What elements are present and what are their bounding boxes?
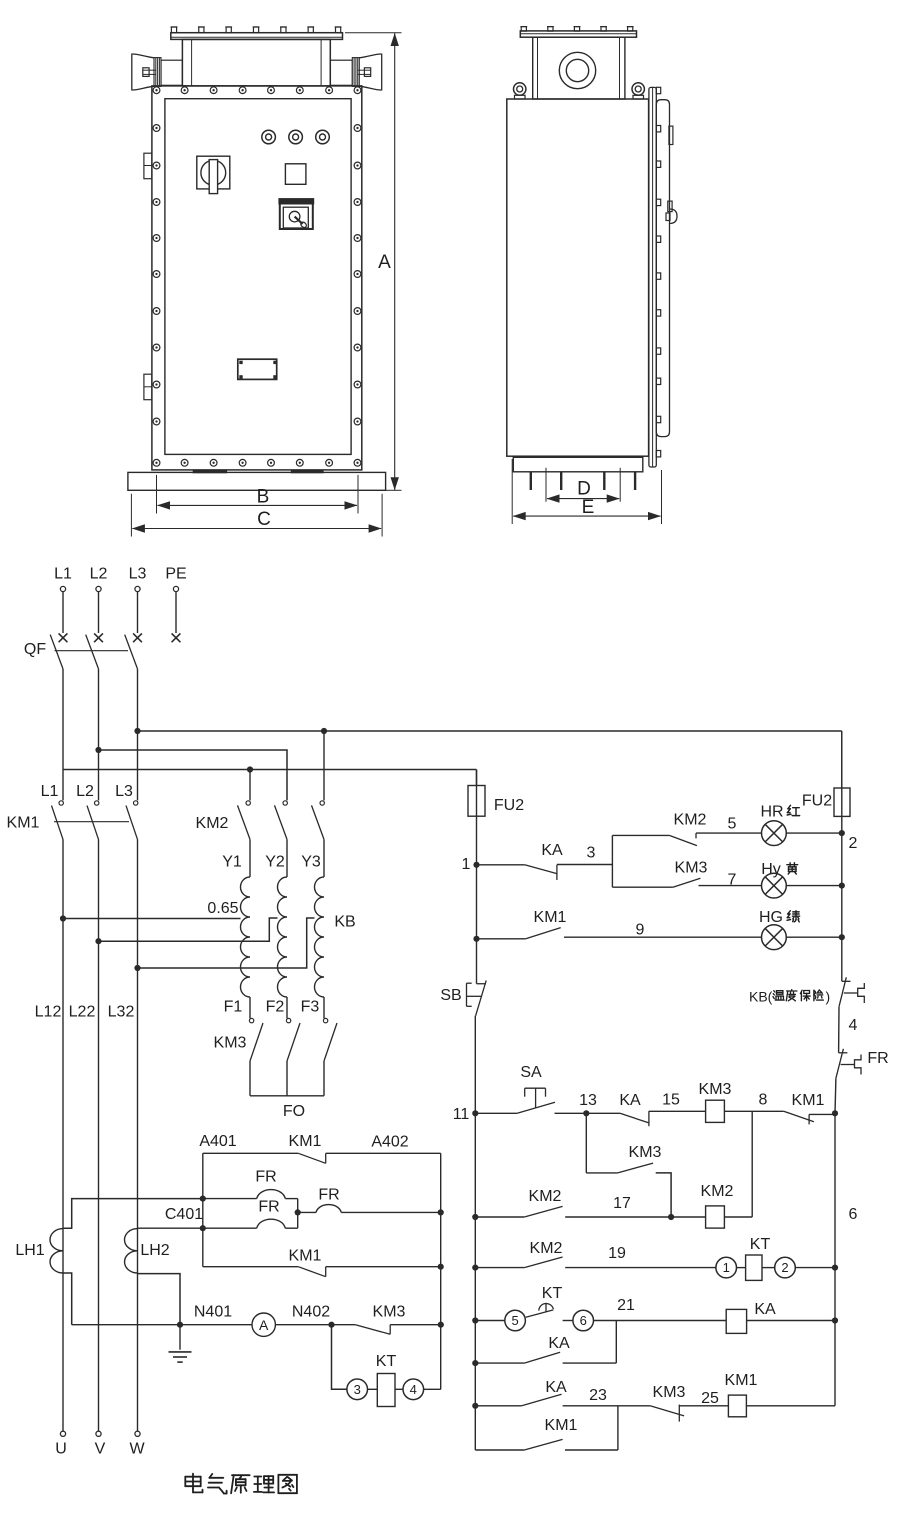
svg-text:N402: N402 xyxy=(292,1304,330,1321)
svg-text:LH2: LH2 xyxy=(140,1242,169,1259)
svg-text:KM2: KM2 xyxy=(674,812,707,829)
cable horn left xyxy=(132,54,154,90)
svg-text:3: 3 xyxy=(354,1382,361,1397)
svg-text:A: A xyxy=(259,1317,269,1333)
svg-text:3: 3 xyxy=(587,845,596,862)
svg-text:KA: KA xyxy=(548,1335,570,1352)
svg-text:KA: KA xyxy=(541,842,563,859)
base plinth xyxy=(128,472,386,490)
wire: node 8 drop xyxy=(751,1111,753,1217)
wire: L3 bus to right rail xyxy=(138,730,842,732)
svg-text:KM3: KM3 xyxy=(629,1144,662,1161)
wire: right rail lower xyxy=(834,1113,836,1406)
svg-text:19: 19 xyxy=(608,1245,626,1262)
main rotary switch handle xyxy=(197,156,230,189)
svg-text:KM2: KM2 xyxy=(530,1240,563,1257)
wire: branch split xyxy=(611,835,613,887)
wire: 65% tap phase 3 xyxy=(138,918,315,968)
QF linkage xyxy=(55,650,129,652)
svg-text:4: 4 xyxy=(849,1017,858,1034)
dimension E xyxy=(511,459,513,524)
svg-text:QF: QF xyxy=(24,641,46,658)
svg-text:KM2: KM2 xyxy=(196,815,229,832)
gland hole xyxy=(559,52,595,88)
svg-text:F2: F2 xyxy=(266,999,285,1016)
svg-text:L12: L12 xyxy=(35,1004,62,1021)
svg-text:5: 5 xyxy=(511,1313,518,1328)
door outer face xyxy=(656,100,669,437)
svg-text:FR: FR xyxy=(867,1050,888,1067)
ground xyxy=(179,1325,181,1350)
svg-text:8: 8 xyxy=(759,1092,768,1109)
frame bolts top row xyxy=(153,87,160,94)
svg-text:FR: FR xyxy=(255,1169,276,1186)
svg-text:U: U xyxy=(55,1441,67,1458)
svg-text:LH1: LH1 xyxy=(15,1242,44,1259)
svg-text:KA: KA xyxy=(754,1301,776,1318)
svg-text:KM2: KM2 xyxy=(701,1183,734,1200)
svg-text:KT: KT xyxy=(750,1236,771,1253)
cabinet side view xyxy=(507,27,677,524)
dimension A xyxy=(345,32,402,34)
svg-text:KM3: KM3 xyxy=(675,860,708,877)
svg-text:9: 9 xyxy=(636,922,645,939)
svg-text:): ) xyxy=(826,989,831,1005)
svg-text:FR: FR xyxy=(258,1199,279,1216)
dimension C xyxy=(130,494,132,537)
svg-text:A402: A402 xyxy=(371,1134,408,1151)
svg-text:L32: L32 xyxy=(108,1004,135,1021)
svg-text:C: C xyxy=(257,509,271,530)
svg-text:KT: KT xyxy=(376,1353,397,1370)
svg-text:L22: L22 xyxy=(69,1004,96,1021)
svg-text:23: 23 xyxy=(589,1387,607,1404)
svg-text:HR: HR xyxy=(760,804,783,821)
svg-text:KT: KT xyxy=(542,1285,563,1302)
dimension B xyxy=(156,475,158,514)
svg-text:PE: PE xyxy=(165,566,186,583)
door bolts xyxy=(656,87,660,93)
svg-text:FU2: FU2 xyxy=(802,793,832,810)
svg-text:KM1: KM1 xyxy=(534,909,567,926)
top flange bar xyxy=(171,33,343,40)
wire: FO star point xyxy=(250,1095,324,1097)
svg-text:FO: FO xyxy=(283,1103,305,1120)
svg-text:KM1: KM1 xyxy=(289,1133,322,1150)
svg-text:0.65: 0.65 xyxy=(207,900,238,917)
wire: right loop vertical xyxy=(440,1153,442,1389)
svg-text:Hy: Hy xyxy=(761,861,781,878)
door handle xyxy=(668,201,672,212)
svg-text:KM1: KM1 xyxy=(7,815,40,832)
svg-text:FR: FR xyxy=(318,1187,339,1204)
cable horn right xyxy=(360,54,382,90)
top cable entry box xyxy=(182,39,330,86)
svg-text:KA: KA xyxy=(619,1092,641,1109)
motor terminals U V W xyxy=(60,1431,65,1436)
svg-text:A401: A401 xyxy=(199,1133,236,1150)
side base xyxy=(513,457,643,472)
svg-text:SB: SB xyxy=(440,987,461,1004)
svg-text:A: A xyxy=(378,252,391,273)
hinge tab lower xyxy=(144,374,152,400)
wire: node 6 drop below xyxy=(615,1321,617,1364)
svg-text:Y3: Y3 xyxy=(301,854,321,871)
frame bolts left column xyxy=(153,125,160,132)
svg-text:KB(: KB( xyxy=(749,989,773,1005)
legs xyxy=(530,472,532,490)
svg-text:E: E xyxy=(582,497,595,518)
svg-text:1: 1 xyxy=(462,856,471,873)
wire: control left rail xyxy=(476,816,478,984)
svg-text:W: W xyxy=(129,1441,145,1458)
svg-text:4: 4 xyxy=(410,1382,417,1397)
top flange bolts xyxy=(171,27,176,33)
svg-text:KM3: KM3 xyxy=(653,1384,686,1401)
horn bolt right xyxy=(364,68,370,77)
indicator lights xyxy=(262,130,276,144)
lifting eye left xyxy=(514,83,526,95)
svg-text:B: B xyxy=(257,487,270,508)
svg-text:KM1: KM1 xyxy=(545,1417,578,1434)
svg-text:11: 11 xyxy=(453,1106,470,1123)
svg-text:HG: HG xyxy=(759,909,783,926)
svg-text:F1: F1 xyxy=(224,999,243,1016)
side ear left xyxy=(161,60,182,85)
svg-text:KA: KA xyxy=(545,1379,567,1396)
svg-text:KM2: KM2 xyxy=(529,1188,562,1205)
svg-text:KB: KB xyxy=(334,914,355,931)
cabinet front view xyxy=(128,27,402,537)
lifting eye right xyxy=(632,83,644,95)
reset button xyxy=(285,164,306,185)
svg-text:F3: F3 xyxy=(301,999,320,1016)
svg-text:6: 6 xyxy=(580,1313,587,1328)
svg-text:L3: L3 xyxy=(115,783,133,800)
svg-text:1: 1 xyxy=(723,1260,730,1275)
wire: control right rail xyxy=(841,816,843,981)
svg-text:2: 2 xyxy=(781,1260,788,1275)
svg-text:7: 7 xyxy=(728,872,737,889)
door panel xyxy=(165,99,351,455)
wire: left loop vertical xyxy=(202,1153,204,1266)
wire: 65% tap phase 2 xyxy=(99,918,278,941)
svg-text:L1: L1 xyxy=(41,783,59,800)
wire: taps to KM2 poles xyxy=(249,770,251,801)
svg-text:L2: L2 xyxy=(76,783,94,800)
svg-text:KM3: KM3 xyxy=(214,1035,247,1052)
cable gland plate right xyxy=(352,58,359,87)
side flange bolts xyxy=(521,27,526,32)
side ear right xyxy=(330,60,352,85)
key switch window xyxy=(280,200,313,230)
wire: N401 row xyxy=(72,1324,252,1326)
svg-text:25: 25 xyxy=(701,1390,719,1407)
svg-text:L1: L1 xyxy=(54,566,72,583)
svg-text:SA: SA xyxy=(520,1064,542,1081)
svg-text:KM3: KM3 xyxy=(373,1304,406,1321)
wire: L1 bus to left rail xyxy=(63,769,477,771)
cable gland plate left xyxy=(154,58,161,87)
svg-text:Y1: Y1 xyxy=(222,854,242,871)
caption: electrical schematic diagram xyxy=(192,1474,194,1489)
side body xyxy=(507,99,649,456)
wire: 65% tap phase 1 xyxy=(63,918,241,920)
horn bolt left xyxy=(143,68,149,77)
svg-text:5: 5 xyxy=(728,816,737,833)
svg-text:KM1: KM1 xyxy=(289,1248,322,1265)
dimension D xyxy=(545,468,547,502)
svg-text:C401: C401 xyxy=(165,1206,203,1223)
svg-text:KM3: KM3 xyxy=(699,1081,732,1098)
svg-text:2: 2 xyxy=(849,835,858,852)
svg-text:13: 13 xyxy=(579,1092,597,1109)
KM1 linkage xyxy=(54,821,129,823)
nameplate xyxy=(238,359,277,379)
svg-text:V: V xyxy=(95,1441,106,1458)
svg-text:21: 21 xyxy=(617,1297,635,1314)
svg-text:6: 6 xyxy=(849,1206,858,1223)
side neck box xyxy=(533,37,625,99)
svg-text:15: 15 xyxy=(662,1092,680,1109)
svg-text:17: 17 xyxy=(613,1195,631,1212)
ammeter A xyxy=(252,1313,275,1336)
KM1 aux contact top xyxy=(203,1152,298,1154)
svg-text:L3: L3 xyxy=(129,566,147,583)
side flange bar xyxy=(520,31,636,37)
svg-text:KM1: KM1 xyxy=(792,1092,825,1109)
enclosure frame xyxy=(152,86,362,470)
door flange strip xyxy=(649,87,656,467)
svg-text:N401: N401 xyxy=(194,1304,232,1321)
wire: L2 bus to KM2 pole 2 xyxy=(99,750,288,800)
svg-text:Y2: Y2 xyxy=(265,854,285,871)
svg-text:L2: L2 xyxy=(90,566,108,583)
top tab xyxy=(669,126,673,144)
hinge tab upper xyxy=(144,153,152,179)
frame bolts bottom row xyxy=(153,459,160,466)
svg-text:FU2: FU2 xyxy=(494,797,524,814)
svg-text:KM1: KM1 xyxy=(725,1372,758,1389)
frame bolts right column xyxy=(354,125,361,132)
